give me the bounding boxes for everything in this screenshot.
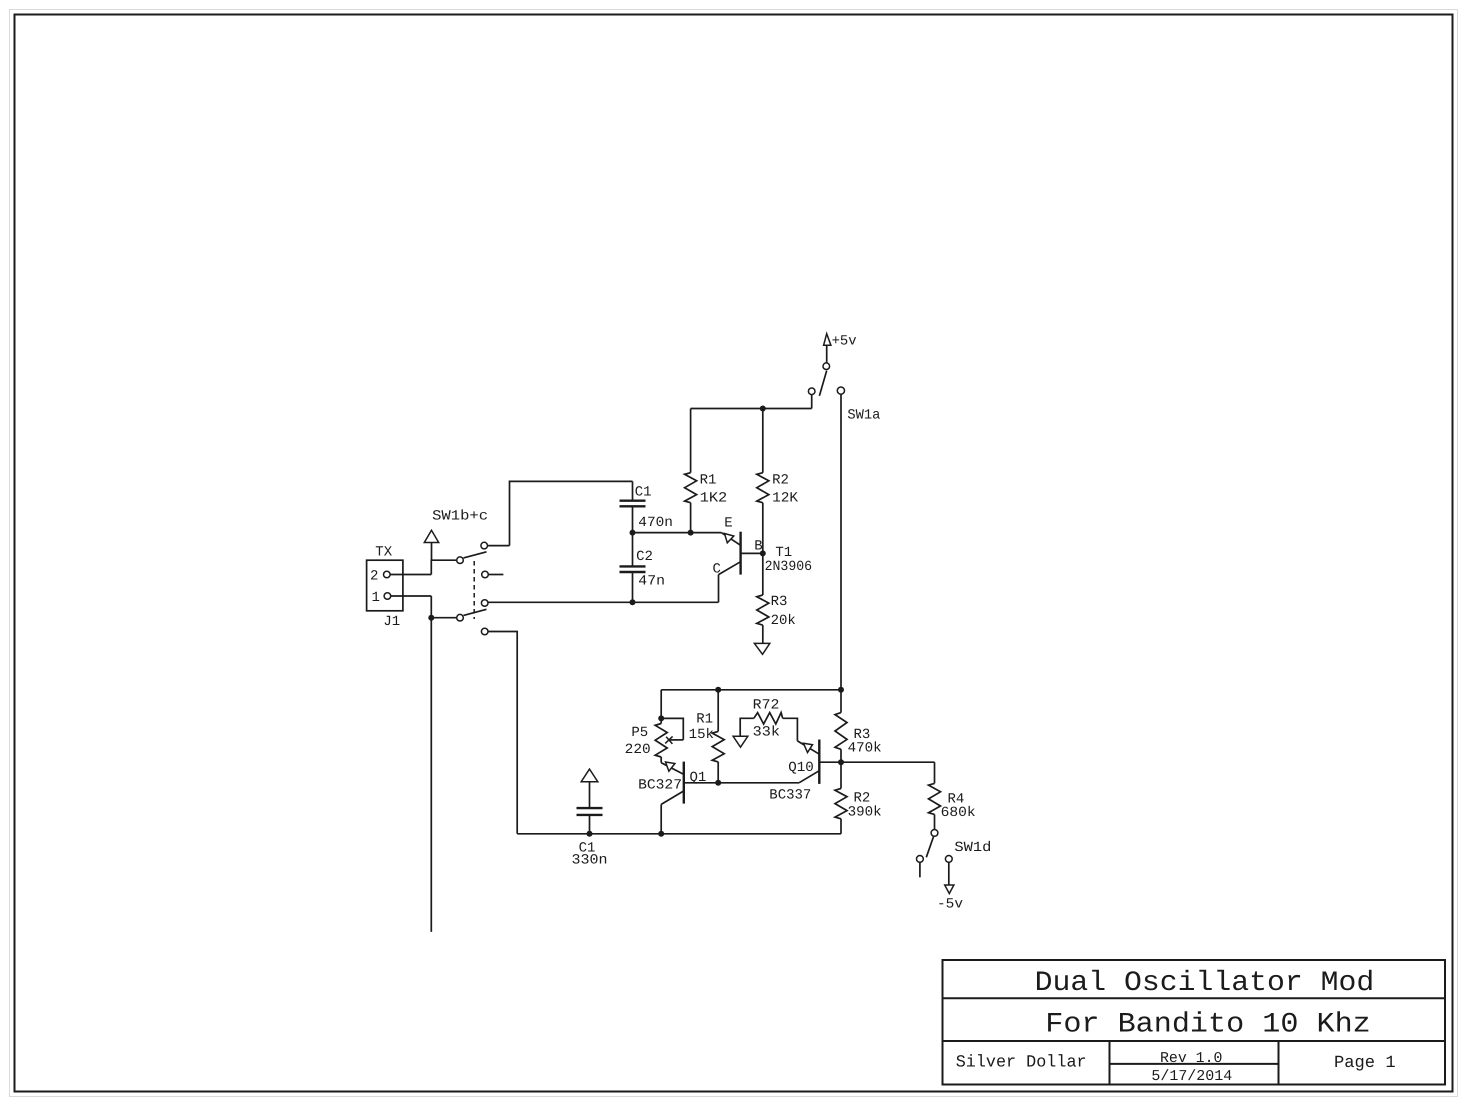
switch SW1b throw mid contact xyxy=(482,571,489,578)
resistor R1b bottom lead xyxy=(717,762,719,783)
svg-text:-5v: -5v xyxy=(937,897,963,913)
switch SW1b throw top contact xyxy=(481,542,488,549)
svg-text:C1: C1 xyxy=(635,485,652,501)
capacitor C1 330n plates xyxy=(577,807,603,809)
wire SW1d right to -5v xyxy=(948,862,950,885)
power +5v arrow xyxy=(824,334,831,346)
resistor R3 top lead xyxy=(762,553,764,595)
svg-text:47n: 47n xyxy=(638,574,665,590)
resistor R4 bottom lead xyxy=(934,814,936,829)
svg-text:BC327: BC327 xyxy=(638,778,682,794)
transistor Q1 base lead xyxy=(684,782,718,784)
wire arrow stem xyxy=(431,543,433,561)
transistor T1 emitter xyxy=(721,533,740,546)
title block vertical divider right xyxy=(1278,1041,1280,1085)
transistor Q1 emitter xyxy=(661,763,684,775)
capacitor C1 470n plates xyxy=(620,500,646,502)
node junction C1b rail xyxy=(587,831,593,837)
wire +5v stem xyxy=(826,345,828,363)
wire pin2 up to switch xyxy=(431,560,457,574)
svg-text:For Bandito 10 Khz: For Bandito 10 Khz xyxy=(1045,1010,1371,1041)
switch SW1c throw top contact xyxy=(481,600,488,607)
trimmer R72 left arrow xyxy=(733,736,748,747)
svg-text:SW1d: SW1d xyxy=(954,840,991,856)
resistor R2 12K xyxy=(757,473,769,503)
svg-text:Q1: Q1 xyxy=(690,770,707,786)
wire emitter rail xyxy=(633,532,722,534)
wire R72 to Q10 collector xyxy=(797,741,819,754)
transistor T1 emitter arrow xyxy=(725,534,734,543)
svg-text:R72: R72 xyxy=(753,697,780,713)
svg-text:20k: 20k xyxy=(771,613,796,629)
svg-text:TX: TX xyxy=(375,545,392,561)
wire SW1a down to lower rail xyxy=(840,395,842,690)
resistor R4 680k xyxy=(929,783,941,814)
svg-text:BC337: BC337 xyxy=(769,788,811,804)
trimmer R72 right lead xyxy=(783,718,798,741)
switch SW1d lever xyxy=(926,837,933,858)
transistor Q10 emitter xyxy=(799,771,819,783)
svg-text:1K2: 1K2 xyxy=(700,491,728,507)
wire pin1 down long xyxy=(430,596,432,932)
wire to SW1c common xyxy=(431,617,457,619)
svg-text:5/17/2014: 5/17/2014 xyxy=(1151,1068,1232,1085)
svg-text:Page 1: Page 1 xyxy=(1334,1054,1396,1073)
resistor R3 20k xyxy=(757,595,769,625)
title block divider 1 xyxy=(943,997,1446,999)
resistor R1 15k xyxy=(712,731,724,762)
transistor Q10 base lead xyxy=(819,761,841,763)
wire lower top rail xyxy=(661,689,841,691)
power arrow above SW1b feed xyxy=(424,530,438,542)
switch gang dashed link xyxy=(473,561,475,619)
node junction at SW1c feed xyxy=(428,615,434,621)
potentiometer P5 220 xyxy=(655,724,667,758)
wire SW1b throw mid stub xyxy=(488,574,503,576)
svg-text:SW1a: SW1a xyxy=(847,408,880,424)
transistor Q10 body xyxy=(818,740,820,784)
resistor R4 top lead xyxy=(934,762,936,783)
node junction rail-R1b xyxy=(715,687,721,693)
wire Q10 emitter to Q1 base xyxy=(718,782,799,784)
svg-text:33k: 33k xyxy=(753,725,780,741)
svg-text:E: E xyxy=(724,515,732,531)
svg-text:Q10: Q10 xyxy=(788,760,814,776)
capacitor C2 bottom lead xyxy=(632,572,634,602)
wire top rail xyxy=(691,408,812,410)
svg-text:390k: 390k xyxy=(848,805,882,821)
node junction rail-R2 xyxy=(760,406,766,412)
title block frame xyxy=(943,960,1446,1085)
node junction Q1 collector rail xyxy=(658,831,664,837)
wire pin2 out xyxy=(390,574,431,576)
svg-text:1: 1 xyxy=(372,590,380,606)
wire collector rail xyxy=(488,601,718,603)
svg-text:C2: C2 xyxy=(636,549,653,565)
svg-text:680k: 680k xyxy=(941,805,976,821)
switch SW1c throw bottom contact xyxy=(481,628,488,635)
resistor R2 bottom lead xyxy=(762,503,764,554)
wire SW1c throw bottom xyxy=(488,632,517,834)
svg-text:470k: 470k xyxy=(848,741,882,757)
switch SW1d throw left contact xyxy=(917,856,924,863)
transistor Q1 body xyxy=(683,762,685,804)
svg-text:R1: R1 xyxy=(696,711,713,727)
svg-text:Rev 1.0: Rev 1.0 xyxy=(1160,1050,1222,1067)
switch SW1a common contact xyxy=(823,363,830,370)
switch SW1c lever xyxy=(464,609,487,615)
wire rail to P5 xyxy=(660,690,662,719)
capacitor C1b bottom lead xyxy=(589,815,591,834)
resistor R2b top lead xyxy=(840,762,842,788)
potentiometer P5 top lead xyxy=(660,718,662,723)
wire lower bottom rail xyxy=(517,833,841,835)
svg-text:B: B xyxy=(754,539,762,555)
wire pin1 out xyxy=(391,595,432,597)
capacitor C1 bottom lead xyxy=(632,506,634,532)
title block vertical divider left xyxy=(1109,1041,1111,1085)
potentiometer P5 bottom lead xyxy=(660,757,662,763)
transistor T1 body xyxy=(739,532,741,575)
resistor R3 bottom lead xyxy=(762,625,764,643)
node junction T1 base xyxy=(760,550,766,556)
pin 1 contact xyxy=(384,593,391,600)
resistor R3b top lead xyxy=(840,690,842,713)
ground arrow under R3 xyxy=(754,643,769,654)
trimmer R72 33k xyxy=(754,713,783,724)
resistor R2b 390k xyxy=(835,789,847,819)
title block divider 2 xyxy=(943,1040,1446,1042)
capacitor C1 top lead xyxy=(632,481,634,500)
node junction Q1 base xyxy=(715,780,721,786)
capacitor C1b stem xyxy=(589,782,591,808)
svg-text:R1: R1 xyxy=(700,473,717,489)
switch SW1b common contact xyxy=(457,557,464,564)
transistor Q1 emitter arrow xyxy=(666,762,675,771)
resistor R3b 470k xyxy=(835,713,847,750)
svg-text:R3: R3 xyxy=(771,594,788,610)
svg-text:2N3906: 2N3906 xyxy=(765,559,813,575)
wire SW1d left stub xyxy=(919,862,921,877)
svg-text:SW1b+c: SW1b+c xyxy=(432,509,488,525)
svg-text:12K: 12K xyxy=(772,491,799,507)
wire base node to R4 xyxy=(841,761,935,763)
pin 2 contact xyxy=(384,571,391,578)
node junction rail-SW1a xyxy=(838,687,844,693)
svg-text:C: C xyxy=(713,562,721,578)
capacitor C2 top lead xyxy=(632,533,634,566)
capacitor C2 47n plates xyxy=(620,565,646,567)
svg-text:2: 2 xyxy=(370,568,378,584)
node junction C2-collector rail xyxy=(630,599,636,605)
svg-text:220: 220 xyxy=(625,742,651,758)
svg-text:470n: 470n xyxy=(638,515,673,531)
resistor R1 top lead xyxy=(690,409,692,473)
node junction P5 top xyxy=(658,715,664,721)
switch SW1a throw contact right xyxy=(837,387,844,394)
Q10 collector arrow xyxy=(804,743,813,752)
resistor R1 bottom lead xyxy=(690,503,692,533)
switch SW1a lever xyxy=(819,371,826,396)
title block rev-date divider xyxy=(1110,1063,1279,1065)
wire left throw down xyxy=(811,395,813,409)
svg-text:330n: 330n xyxy=(572,853,608,869)
potentiometer P5 wiper arrow xyxy=(670,739,684,741)
switch SW1b lever xyxy=(464,552,487,558)
resistor R2 top lead xyxy=(762,409,764,473)
resistor R1 1K2 xyxy=(685,473,697,503)
svg-text:R2: R2 xyxy=(772,473,789,489)
node junction C1-C2-emitter xyxy=(630,530,636,536)
wire SW1b throw top xyxy=(488,545,510,547)
switch SW1d common contact xyxy=(931,830,938,837)
svg-text:J1: J1 xyxy=(383,614,400,630)
resistor R1b top lead xyxy=(717,690,719,732)
transistor T1 collector xyxy=(719,562,741,575)
transistor Q1 collector xyxy=(661,791,684,805)
resistor R2b bottom lead xyxy=(840,819,842,834)
transistor T1 base lead xyxy=(741,552,763,554)
switch SW1a throw contact left xyxy=(808,388,815,395)
trimmer R72 left lead xyxy=(740,718,754,736)
svg-text:15k: 15k xyxy=(689,727,714,743)
switch SW1c common contact xyxy=(457,614,464,621)
wire C1 top feed xyxy=(510,481,633,545)
connector J1 TX body xyxy=(367,560,403,611)
svg-text:+5v: +5v xyxy=(832,333,857,349)
svg-text:Dual Oscillator Mod: Dual Oscillator Mod xyxy=(1035,968,1375,999)
wire Q1 collector down xyxy=(660,804,662,833)
svg-text:Silver Dollar: Silver Dollar xyxy=(956,1054,1087,1073)
potentiometer P5 wiper wire xyxy=(661,718,683,740)
svg-text:P5: P5 xyxy=(631,725,648,741)
resistor R3b bottom lead xyxy=(840,749,842,762)
power arrow above C1 330n xyxy=(581,769,598,782)
switch SW1d throw right contact xyxy=(945,856,952,863)
node junction R1-emitter xyxy=(688,530,694,536)
power -5v arrow xyxy=(945,885,954,894)
wire collector down xyxy=(718,575,720,603)
node junction R3-R2-base xyxy=(838,759,844,765)
